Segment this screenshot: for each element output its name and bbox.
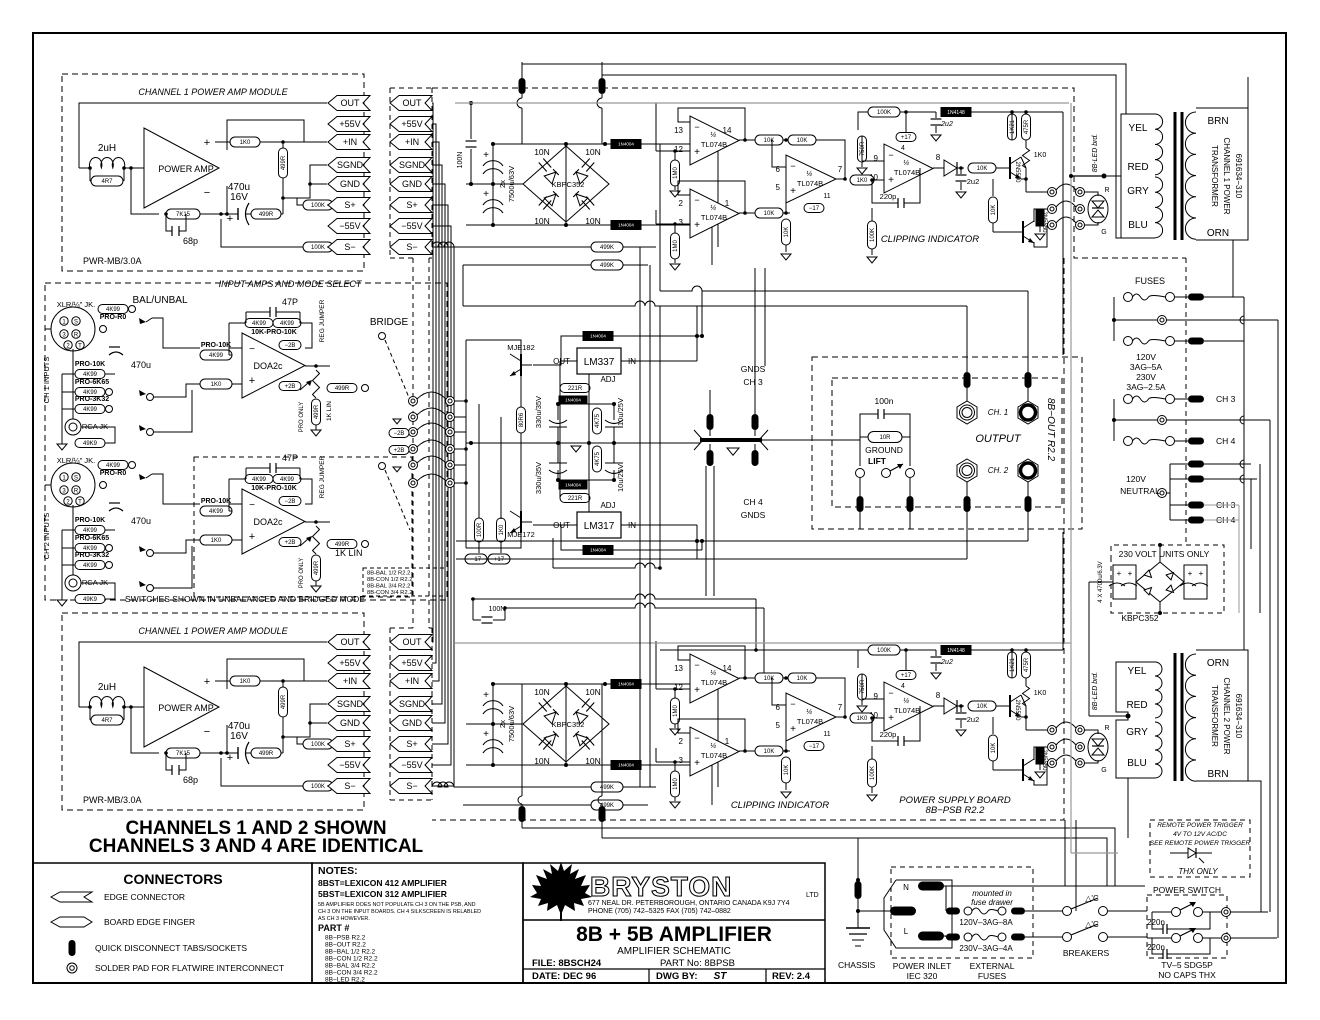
fuse F1	[1124, 293, 1133, 302]
resistor 1K0 zigzag	[1025, 678, 1027, 686]
svg-text:4K99: 4K99	[280, 477, 295, 483]
wire D- in	[861, 677, 863, 699]
capacitor 47P	[268, 468, 270, 476]
board edge finger GND col2 bottom	[390, 716, 432, 731]
svg-text:+55V: +55V	[339, 658, 360, 668]
svg-text:499R: 499R	[281, 155, 287, 170]
svg-text:+: +	[888, 713, 894, 724]
capacitor 100N bottom	[473, 619, 481, 621]
svg-text:REG JUMPER: REG JUMPER	[319, 455, 326, 498]
resistor 499R out	[327, 384, 357, 393]
capacitor 47P	[268, 312, 270, 320]
resistor 1K0 zigzag	[1025, 140, 1027, 148]
svg-text:7K15: 7K15	[176, 751, 191, 757]
gray rail bottom	[455, 642, 1071, 644]
svg-text:475R: 475R	[1024, 657, 1030, 672]
resistor 4K99 fb1	[245, 319, 273, 328]
svg-text:PRO ONLY: PRO ONLY	[299, 558, 305, 589]
svg-text:DWG BY:: DWG BY:	[656, 971, 698, 982]
svg-text:4R7: 4R7	[101, 718, 113, 724]
svg-text:GRY: GRY	[1126, 727, 1148, 738]
svg-text:CONNECTORS: CONNECTORS	[123, 871, 222, 887]
svg-text:+: +	[204, 676, 210, 688]
resistor 100K vert down	[868, 759, 877, 787]
svg-text:−55V: −55V	[401, 221, 422, 231]
svg-text:750R: 750R	[860, 141, 866, 156]
svg-text:TRANSFORMER: TRANSFORMER	[1210, 145, 1219, 207]
svg-text:2uH: 2uH	[98, 143, 116, 154]
svg-text:THX ONLY: THX ONLY	[1178, 867, 1218, 876]
svg-text:PART No: 8BPSB: PART No: 8BPSB	[660, 958, 735, 969]
svg-text:GRY: GRY	[1127, 186, 1149, 197]
svg-text:CH 3: CH 3	[1216, 394, 1236, 404]
triac symbol	[1170, 852, 1192, 854]
wire AC vertical x=522 bottom	[521, 684, 523, 796]
svg-text:7K15: 7K15	[176, 212, 191, 218]
svg-text:230V: 230V	[1136, 372, 1156, 382]
svg-text:POWER AMP: POWER AMP	[158, 164, 214, 174]
svg-text:−: −	[790, 699, 795, 709]
rail -55 bottom	[466, 224, 612, 226]
op-amp DOA2c	[242, 489, 305, 554]
rail +55 top	[493, 683, 612, 685]
svg-text:1K LIN: 1K LIN	[335, 548, 363, 558]
resistor 499K a	[591, 782, 623, 792]
svg-text:2u2: 2u2	[967, 715, 980, 724]
wire S- 100K	[303, 781, 333, 791]
svg-text:−: −	[888, 688, 893, 698]
board edge finger SGND col2 bottom	[390, 697, 432, 712]
svg-text:REMOTE POWER TRIGGER: REMOTE POWER TRIGGER	[1157, 822, 1243, 829]
resistor 4K99 pro-r0	[98, 461, 128, 470]
svg-text:R: R	[74, 489, 79, 495]
svg-text:4K99: 4K99	[252, 477, 267, 483]
svg-text:R: R	[74, 333, 79, 339]
svg-text:+55V: +55V	[401, 658, 422, 668]
svg-text:8B-LED brd.: 8B-LED brd.	[1092, 672, 1099, 711]
T2 core bars	[1174, 653, 1177, 781]
svg-text:49K9: 49K9	[83, 441, 98, 447]
resistor 499R	[251, 209, 281, 219]
svg-text:10u/25V: 10u/25V	[616, 464, 625, 492]
svg-text:GND: GND	[402, 718, 423, 728]
svg-text:CHANNEL 2 POWER: CHANNEL 2 POWER	[1222, 677, 1231, 754]
capacitor 220p	[872, 718, 898, 741]
svg-text:fuse drawer: fuse drawer	[971, 898, 1013, 907]
wire GND top to bus	[432, 184, 445, 465]
ground lift switch	[856, 469, 865, 478]
wire S- 100K	[303, 242, 333, 252]
svg-text:CH 3 ON THE INPUT BOARDS. CH 4: CH 3 ON THE INPUT BOARDS. CH 4 SILKSCREE…	[318, 909, 481, 915]
svg-text:10K: 10K	[764, 749, 775, 755]
wires caps vertical	[557, 404, 559, 420]
output jack wires	[966, 306, 968, 372]
T2 secondary BLU wire	[1127, 778, 1129, 838]
pill -17 C	[804, 742, 824, 751]
wire bridge left corner	[466, 183, 523, 185]
svg-text:−17: −17	[809, 206, 820, 212]
svg-text:N: N	[903, 883, 909, 892]
wire rca switch	[153, 540, 192, 588]
svg-text:2N5550: 2N5550	[1014, 699, 1020, 721]
resistor 10R	[868, 432, 902, 443]
svg-text:6: 6	[776, 703, 781, 712]
wire Q1 emitter to pads	[1021, 179, 1026, 192]
svg-text:OUTPUT: OUTPUT	[975, 433, 1022, 445]
svg-text:10K: 10K	[797, 676, 808, 682]
svg-text:−2B: −2B	[285, 343, 296, 349]
long wires bottom to power	[857, 847, 859, 849]
svg-text:1K0: 1K0	[1034, 690, 1047, 697]
svg-text:PHONE (705) 742–5325: PHONE (705) 742–5325 FAX (705) 742–0882	[588, 908, 731, 915]
resistor 10K b1	[755, 746, 783, 756]
LED 8B-LED	[1088, 733, 1108, 761]
svg-text:1K21: 1K21	[1010, 119, 1016, 134]
bottom module AC feeds	[825, 835, 827, 837]
board edge finger S− col2 top	[390, 240, 432, 255]
edge connector +55V col1 bottom	[328, 656, 370, 671]
op-amp TL074B C	[786, 155, 836, 203]
wire C in	[772, 678, 786, 705]
svg-text:1M0: 1M0	[673, 705, 679, 717]
jumper pads right	[1076, 726, 1085, 735]
svg-text:1: 1	[725, 199, 730, 208]
svg-text:80R6: 80R6	[519, 412, 525, 427]
wire OUT bottom to bus	[432, 401, 433, 642]
pot 1K LIN	[313, 526, 320, 554]
svg-text:LM337: LM337	[584, 357, 615, 368]
pill +2B bus	[389, 446, 409, 455]
svg-text:TL074B: TL074B	[797, 717, 823, 726]
svg-text:7: 7	[838, 703, 843, 712]
svg-text:221R: 221R	[568, 386, 583, 392]
svg-text:CH 1 INPUTS: CH 1 INPUTS	[42, 357, 51, 404]
svg-text:−: −	[694, 195, 699, 205]
title block box	[523, 863, 825, 983]
svg-text:¼: ¼	[710, 132, 716, 139]
T2 center tap wire	[1126, 714, 1131, 719]
edge connector GND col1 bottom	[328, 716, 370, 731]
pot 1K LIN	[313, 370, 320, 398]
svg-text:−2B: −2B	[285, 499, 296, 505]
power switch pole 1	[1172, 908, 1181, 917]
svg-text:5B AMPLIFIER DOES NOT POPULATE: 5B AMPLIFIER DOES NOT POPULATE CH 3 ON T…	[318, 902, 476, 908]
svg-text:CH. 1: CH. 1	[988, 408, 1008, 417]
diode 1N4004 top rail	[611, 680, 641, 689]
LED 8B-LED	[1088, 195, 1108, 223]
black small pill Q2	[1036, 210, 1044, 226]
black small pill Q2	[1036, 748, 1044, 764]
svg-text:¼: ¼	[710, 205, 716, 212]
wire 499K b corner down	[462, 265, 464, 306]
svg-text:11: 11	[823, 731, 830, 738]
jumper arcs	[1056, 184, 1076, 190]
svg-text:1K LIN: 1K LIN	[326, 401, 333, 421]
capacitor 2u2 out	[960, 168, 962, 174]
svg-text:POWER AMP: POWER AMP	[158, 703, 214, 713]
svg-text:SGND: SGND	[399, 160, 426, 170]
gray stub CH4 low	[1204, 519, 1239, 521]
solder pad legend symbol	[67, 963, 77, 973]
wire +IN top to bus	[432, 142, 439, 432]
svg-text:CH 2 INPUTS: CH 2 INPUTS	[42, 513, 51, 560]
svg-text:ORN: ORN	[1207, 658, 1229, 669]
svg-text:S: S	[74, 476, 78, 482]
gray rail drop	[1070, 103, 1072, 853]
rail +55 top	[493, 143, 612, 145]
svg-text:TL074B: TL074B	[701, 213, 727, 222]
svg-text:EXTERNAL: EXTERNAL	[970, 961, 1015, 971]
resistor 49K9	[75, 595, 105, 604]
pill +17 D	[896, 133, 916, 142]
svg-text:CHANNEL 1 POWER AMP MODULE: CHANNEL 1 POWER AMP MODULE	[138, 626, 288, 636]
svg-text:14: 14	[723, 126, 732, 135]
svg-text:4K99: 4K99	[209, 353, 224, 359]
svg-text:10N: 10N	[585, 147, 601, 157]
ground input	[57, 444, 67, 450]
resistor 100K top	[868, 107, 900, 117]
board edge finger SGND col2 top	[390, 158, 432, 173]
wire inverting input	[131, 168, 159, 214]
capacitor 470u input	[109, 502, 120, 504]
svg-text:¼: ¼	[903, 160, 909, 167]
svg-text:△'C: △'C	[1085, 894, 1099, 903]
svg-text:10K: 10K	[991, 743, 997, 754]
XLR connector CH2	[51, 463, 95, 507]
wire GND bottom to bus	[432, 465, 445, 723]
wire rca switch	[153, 384, 192, 432]
svg-text:68p: 68p	[183, 236, 198, 246]
op-amp TL074B D clipping	[884, 682, 933, 731]
svg-text:PRO-R0: PRO-R0	[100, 470, 127, 477]
feedback wire B	[678, 181, 745, 213]
resistor 1K0	[230, 676, 260, 686]
svg-text:TRANSFORMER: TRANSFORMER	[1210, 685, 1219, 747]
230V caps right	[1184, 565, 1207, 599]
svg-text:CH 4: CH 4	[743, 497, 763, 507]
svg-text:691634−310: 691634−310	[1234, 694, 1243, 739]
resistor 49K9	[75, 439, 105, 448]
output diode	[944, 160, 957, 176]
svg-text:+IN: +IN	[405, 676, 419, 686]
wire AC vertical x=602 bottom	[601, 684, 603, 796]
jumper arc 2	[409, 413, 418, 422]
svg-text:8B−LED R2.2: 8B−LED R2.2	[325, 977, 365, 984]
svg-text:+17: +17	[494, 557, 505, 563]
svg-text:10N: 10N	[585, 687, 601, 697]
svg-text:POWER SWITCH: POWER SWITCH	[1153, 885, 1221, 895]
svg-text:CHANNEL 1 POWER AMP MODULE: CHANNEL 1 POWER AMP MODULE	[138, 87, 288, 97]
regulator LM317	[577, 512, 621, 538]
svg-text:S−: S−	[344, 781, 355, 791]
svg-text:100K: 100K	[311, 203, 325, 209]
svg-text:ADJ: ADJ	[600, 501, 615, 510]
wire switch to non-inverting input	[153, 540, 200, 553]
capacitor 100n output	[860, 414, 878, 440]
svg-text:100K: 100K	[877, 648, 891, 654]
svg-text:TL074B: TL074B	[797, 179, 823, 188]
svg-text:470u: 470u	[131, 360, 151, 370]
resistor 4K99 fb2	[273, 319, 301, 328]
svg-text:CLIPPING INDICATOR: CLIPPING INDICATOR	[881, 234, 979, 245]
svg-text:+17: +17	[901, 673, 912, 679]
svg-text:4K75: 4K75	[595, 413, 601, 428]
middle wire LM317 out down	[552, 538, 554, 568]
edge connector OUT col1 bottom	[328, 635, 370, 650]
svg-text:8B−BAL 3/4 R2.2: 8B−BAL 3/4 R2.2	[325, 963, 376, 970]
output jack CH2 a	[957, 459, 977, 482]
notes box	[312, 863, 523, 983]
title block logo row divider	[523, 919, 825, 921]
wire star to output box	[762, 439, 860, 441]
dashed box CHANNEL 1 POWER AMP MODULE	[62, 613, 364, 810]
svg-text:4K99: 4K99	[106, 463, 121, 469]
wire +55V bottom to bus	[432, 417, 436, 663]
T1 primary coils	[1185, 112, 1196, 239]
svg-text:1K0: 1K0	[240, 140, 251, 146]
svg-text:3AG–5A: 3AG–5A	[1130, 362, 1162, 372]
quick disconnect legend symbol	[69, 940, 76, 956]
bridge switch circles	[379, 333, 386, 340]
diode 1N4004 top rail	[611, 140, 641, 149]
dashed box 230 volt units only	[1111, 545, 1224, 613]
wire minus input	[226, 186, 228, 214]
wire S+ top to bus	[432, 205, 448, 483]
resistor 10K a2	[788, 135, 816, 145]
solder pad row1	[1158, 316, 1167, 325]
svg-text:BOARD EDGE FINGER: BOARD EDGE FINGER	[104, 917, 195, 927]
svg-text:PART #: PART #	[318, 923, 349, 933]
svg-text:6: 6	[776, 165, 781, 174]
capacitor 2u2 out	[960, 706, 962, 712]
resistor 4K99 fb1	[245, 475, 273, 484]
resistor 499K b	[591, 800, 623, 810]
star ground vertical wires up	[709, 390, 711, 414]
svg-text:−: −	[249, 344, 255, 355]
svg-text:PRO-R0: PRO-R0	[100, 314, 127, 321]
svg-text:8B + 5B AMPLIFIER: 8B + 5B AMPLIFIER	[576, 923, 772, 946]
svg-text:8B−CON 3/4 R2.2: 8B−CON 3/4 R2.2	[325, 970, 378, 977]
resistor 100K top	[868, 645, 900, 655]
svg-text:CH. 2: CH. 2	[988, 466, 1009, 475]
diode 1N4004 bottom rail	[611, 761, 641, 770]
resistor 1K21 vert	[1008, 114, 1017, 140]
svg-text:SGND: SGND	[337, 699, 364, 709]
svg-text:4R7: 4R7	[101, 179, 113, 185]
svg-text:47P: 47P	[282, 453, 298, 463]
regulator LM337	[577, 348, 621, 374]
svg-text:S−: S−	[344, 242, 355, 252]
transistor 2N5550 Q2	[1022, 759, 1024, 781]
wires input network	[45, 484, 51, 486]
capacitor 68p	[166, 753, 172, 770]
resistor 1K0 vert mid	[497, 518, 506, 542]
output jack CH2 b	[1018, 459, 1038, 482]
ground input	[57, 600, 67, 606]
svg-text:−: −	[204, 726, 210, 738]
svg-text:+: +	[694, 147, 700, 158]
pill -17 mid	[465, 554, 487, 564]
svg-text:4V TO 12V AC/DC: 4V TO 12V AC/DC	[1173, 831, 1227, 838]
svg-text:DOA2c: DOA2c	[253, 361, 283, 371]
svg-text:GND: GND	[340, 179, 361, 189]
svg-text:TV–5 SDG5P: TV–5 SDG5P	[1161, 960, 1213, 970]
svg-text:PWR-MB/3.0A: PWR-MB/3.0A	[83, 256, 142, 266]
edge connector +IN col1 top	[328, 135, 370, 150]
svg-text:CH 4: CH 4	[1216, 436, 1236, 446]
svg-text:1N4004: 1N4004	[565, 398, 581, 403]
wire OUT top to bus	[432, 103, 433, 401]
switch arrow 1	[139, 318, 146, 324]
svg-text:9: 9	[874, 692, 879, 701]
svg-text:10N: 10N	[534, 147, 550, 157]
wire 230V AC to tap vertical	[1088, 582, 1090, 716]
gray rail stub T1 tap	[1071, 175, 1104, 177]
svg-text:PWR-MB/3.0A: PWR-MB/3.0A	[83, 795, 142, 805]
resistor 10K Q2	[989, 197, 998, 223]
svg-text:GNDS: GNDS	[741, 364, 766, 374]
svg-text:ST: ST	[714, 971, 728, 982]
svg-text:230V–3AG–4A: 230V–3AG–4A	[959, 944, 1013, 953]
svg-text:−: −	[790, 161, 795, 171]
svg-text:PRO-3K32: PRO-3K32	[75, 552, 109, 559]
svg-text:ORN: ORN	[1207, 228, 1229, 239]
svg-text:1M0: 1M0	[673, 167, 679, 179]
wires input network	[45, 328, 51, 330]
fuse column dashed line	[1185, 258, 1187, 545]
svg-text:13: 13	[674, 664, 683, 673]
fuse F4 CH4	[1124, 437, 1133, 446]
resistor 4R7	[91, 176, 123, 186]
svg-text:8B−OUT R2.2: 8B−OUT R2.2	[1045, 398, 1056, 462]
board edge finger +IN col2 bottom	[390, 674, 432, 689]
gray stub CH3 low	[1204, 504, 1239, 506]
diode 1N4004 small bottom	[559, 481, 587, 489]
svg-text:8B-CON 1/2 R2.2: 8B-CON 1/2 R2.2	[367, 577, 412, 583]
feedback wire A	[678, 108, 745, 140]
wire −55V bottom to bus	[432, 497, 451, 765]
diode 1N4004 under LM317	[583, 546, 613, 555]
svg-text:230 VOLT UNITS ONLY: 230 VOLT UNITS ONLY	[1119, 549, 1210, 559]
svg-text:8B-BAL 1/2 R2.2: 8B-BAL 1/2 R2.2	[367, 571, 410, 577]
svg-text:10R: 10R	[879, 435, 891, 441]
svg-text:330u/35V: 330u/35V	[534, 462, 543, 494]
resistor 10K a1	[755, 673, 783, 683]
board edge finger +55V col2 top	[390, 117, 432, 132]
jumper arc 4	[409, 445, 418, 454]
transformer T2 secondary coils	[1155, 662, 1162, 718]
svg-text:8B-LED brd.: 8B-LED brd.	[1092, 134, 1099, 173]
wire AC vertical x=522 top	[521, 62, 523, 78]
svg-text:+: +	[790, 724, 796, 735]
svg-text:499K: 499K	[600, 263, 614, 269]
edge connector +IN col1 bottom	[328, 674, 370, 689]
wire S+ 100K	[303, 200, 333, 210]
svg-text:10K: 10K	[764, 211, 775, 217]
svg-text:120V: 120V	[1126, 474, 1146, 484]
svg-text:8: 8	[936, 153, 941, 162]
transistor MJE172	[520, 511, 522, 533]
svg-text:+17: +17	[901, 135, 912, 141]
svg-text:4: 4	[901, 145, 905, 152]
svg-text:OUT: OUT	[403, 637, 423, 647]
svg-text:1K0: 1K0	[211, 538, 222, 544]
wire Q1 emitter to pads	[1021, 717, 1026, 730]
transistor 2N5550 Q2	[1022, 221, 1024, 243]
svg-text:8B−PSB R2.2: 8B−PSB R2.2	[325, 935, 366, 942]
resistor 10K Q2	[989, 735, 998, 761]
vertical bus wires center	[639, 247, 641, 787]
